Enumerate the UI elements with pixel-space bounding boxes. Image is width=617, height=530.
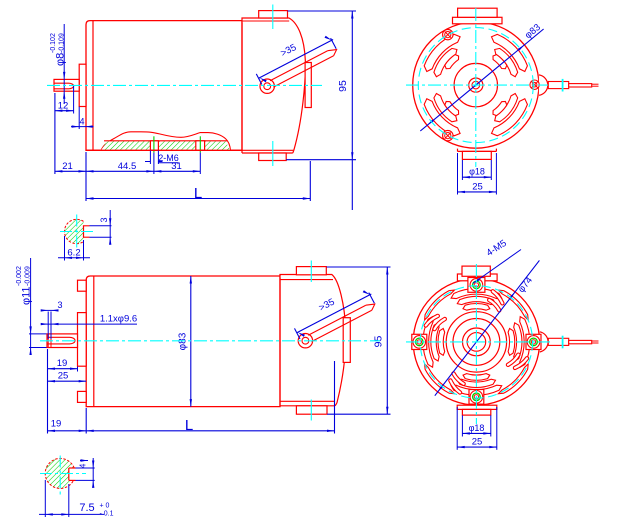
E2 bolt circle <box>420 286 532 398</box>
svg-text:19: 19 <box>57 358 68 369</box>
E2 screw bosses <box>526 334 541 349</box>
tab centerline bottom M2 <box>310 400 312 421</box>
shaft M2 <box>47 334 78 348</box>
svg-text:φ18: φ18 <box>469 167 485 177</box>
circlip groove M2 shaft <box>47 334 49 348</box>
svg-text:-0.102: -0.102 <box>50 33 57 53</box>
end bell top tab M2 <box>296 267 326 275</box>
svg-text:4: 4 <box>79 116 84 126</box>
dimension >35 M1 <box>259 40 334 79</box>
terminal and lead wire M1 <box>260 79 274 93</box>
svg-text:25: 25 <box>472 181 483 192</box>
M6 mounting hole 2 <box>196 141 205 151</box>
dimension 19 bottom M2 <box>47 349 49 434</box>
hole centerline 1 <box>153 136 155 152</box>
E1 dimension phi18 <box>461 160 463 180</box>
svg-text:4: 4 <box>78 463 88 468</box>
svg-text:L: L <box>185 417 193 434</box>
E2 N screw boss <box>468 278 485 293</box>
end bell bottom tab M2 <box>296 406 327 414</box>
section B shaft circle with keyway <box>45 458 74 488</box>
end bell top tab M1 <box>259 11 288 18</box>
svg-text:-0.009: -0.009 <box>25 266 32 286</box>
dimension 21 M1 <box>54 93 56 174</box>
keyway notch section B <box>68 468 70 480</box>
E1 top tab <box>453 17 503 24</box>
dimension 31 M1 <box>154 170 200 172</box>
E2 top tab <box>457 274 497 281</box>
dimension L M1 <box>85 152 87 201</box>
E1 centerline vertical <box>475 8 477 167</box>
section B centerlines <box>40 473 86 475</box>
E2 dimension 25 <box>456 407 458 450</box>
end view E2 outer housing circle <box>413 279 539 405</box>
dimension 3 section A <box>90 225 112 227</box>
svg-text:-0.109: -0.109 <box>59 33 66 53</box>
svg-text:+ 0: + 0 <box>100 503 110 510</box>
bearing flange M1 <box>79 64 86 106</box>
E1 centerline horizontal <box>406 84 548 86</box>
hole centerline 2 <box>199 136 201 152</box>
dimension 25 M2 <box>48 380 87 382</box>
dimension 19 upper M2 <box>77 367 79 372</box>
E1 dimension phi83 diagonal <box>420 29 543 131</box>
baseline under body <box>86 149 242 151</box>
label phi8 tolerance <box>63 24 65 104</box>
dimension 44.5 M1 <box>86 170 154 172</box>
E1 screws <box>443 29 453 39</box>
dimension 3 groove M2 <box>42 309 58 311</box>
dimension phi83 M2 <box>190 276 192 407</box>
svg-text:12: 12 <box>58 100 69 111</box>
svg-text:-0.002: -0.002 <box>16 266 23 286</box>
end plate ear top M2 <box>78 280 87 291</box>
E1 bottom tab <box>457 149 459 152</box>
E1 shaft hub circles <box>469 78 483 92</box>
brush cover box M2 <box>343 318 350 363</box>
end plate ear bottom M2 <box>78 391 87 402</box>
dimension 95 M2 <box>327 266 391 268</box>
svg-text:L: L <box>194 185 202 202</box>
svg-text:19: 19 <box>51 418 62 429</box>
E2 wire <box>548 338 568 345</box>
E1 vent slots <box>424 34 460 71</box>
E1 bolt circle <box>418 28 533 143</box>
svg-text:φ11: φ11 <box>21 286 33 305</box>
E2 vent rainbow arcs <box>508 329 515 356</box>
svg-text:25: 25 <box>472 437 483 448</box>
label phi11 tolerance <box>30 258 32 352</box>
svg-text:6.2: 6.2 <box>67 247 80 258</box>
svg-text:95: 95 <box>373 336 385 348</box>
svg-text:95: 95 <box>337 80 349 92</box>
E2 dimension phi74 diagonal <box>435 260 540 395</box>
E2 tilted slots <box>426 316 438 326</box>
section A shaft circle with flat <box>64 219 83 243</box>
tab centerline top M2 <box>310 261 312 283</box>
E1 dimension 25 <box>457 153 459 195</box>
E2 label 4-M5 <box>473 250 521 284</box>
tab centerline top M1 <box>272 5 274 30</box>
E1 bearing boss circle <box>454 63 497 106</box>
E2 diagonal rim slots <box>498 290 528 320</box>
motor M1 body <box>86 21 242 151</box>
dimension 6.2 section A <box>64 236 66 261</box>
label 2-M6 <box>149 151 151 165</box>
E2 S screw boss <box>469 390 484 405</box>
centerline motor1 side view <box>47 84 322 86</box>
E2 inner circles <box>446 312 506 372</box>
svg-text:2-M6: 2-M6 <box>158 153 179 163</box>
svg-text:- 0.1: - 0.1 <box>100 511 114 518</box>
end view E1 outer housing circle <box>413 22 539 148</box>
dimension 7.5 section B <box>44 480 46 517</box>
M6 mounting hole 1 <box>150 141 158 151</box>
shaft M1 <box>54 79 79 91</box>
end bell bottom tab M1 <box>259 153 287 161</box>
svg-text:φ8: φ8 <box>55 53 67 66</box>
svg-text:3: 3 <box>99 217 109 222</box>
dimension 4 M1 <box>78 107 80 130</box>
bearing flange M2 <box>78 313 87 367</box>
E1 wire <box>548 82 568 89</box>
svg-text:φ18: φ18 <box>469 423 485 433</box>
E2 wire cyan tick <box>562 336 564 349</box>
section A centerlines <box>60 231 94 233</box>
E2 bottom tab <box>457 405 497 409</box>
svg-text:3: 3 <box>57 300 62 310</box>
E2 centerline vertical <box>475 264 477 424</box>
M1 foot hatch band <box>101 141 231 151</box>
dimension >35 M2 <box>297 294 372 333</box>
svg-text:7.5: 7.5 <box>79 502 94 514</box>
E1 wire cyan tick <box>562 79 564 92</box>
dimension 12 M1 <box>73 86 75 114</box>
centerline motor2 side view <box>40 340 380 342</box>
end bell M1 <box>242 18 305 150</box>
dimension L M2 <box>334 361 336 434</box>
svg-text:25: 25 <box>58 371 69 382</box>
dimension 4 keyway section B <box>76 467 95 469</box>
end bell M2 <box>280 275 346 404</box>
svg-text:21: 21 <box>62 161 73 172</box>
motor M2 body <box>86 276 280 407</box>
dimension 95 M1 <box>288 10 357 12</box>
brush cover box M1 <box>305 63 311 108</box>
svg-text:44.5: 44.5 <box>118 161 137 172</box>
E2 centerline horizontal <box>406 341 550 343</box>
terminal and lead wire M2 <box>298 334 312 348</box>
tab centerline bottom M1 <box>272 141 274 166</box>
E2 terminal housing <box>540 332 548 352</box>
section A key stub <box>84 225 90 227</box>
svg-text:1.1xφ9.6: 1.1xφ9.6 <box>100 314 137 325</box>
M1 rubber foot <box>101 132 231 151</box>
E1 terminal housing <box>539 75 548 95</box>
E2 dimension phi18 <box>461 415 463 436</box>
